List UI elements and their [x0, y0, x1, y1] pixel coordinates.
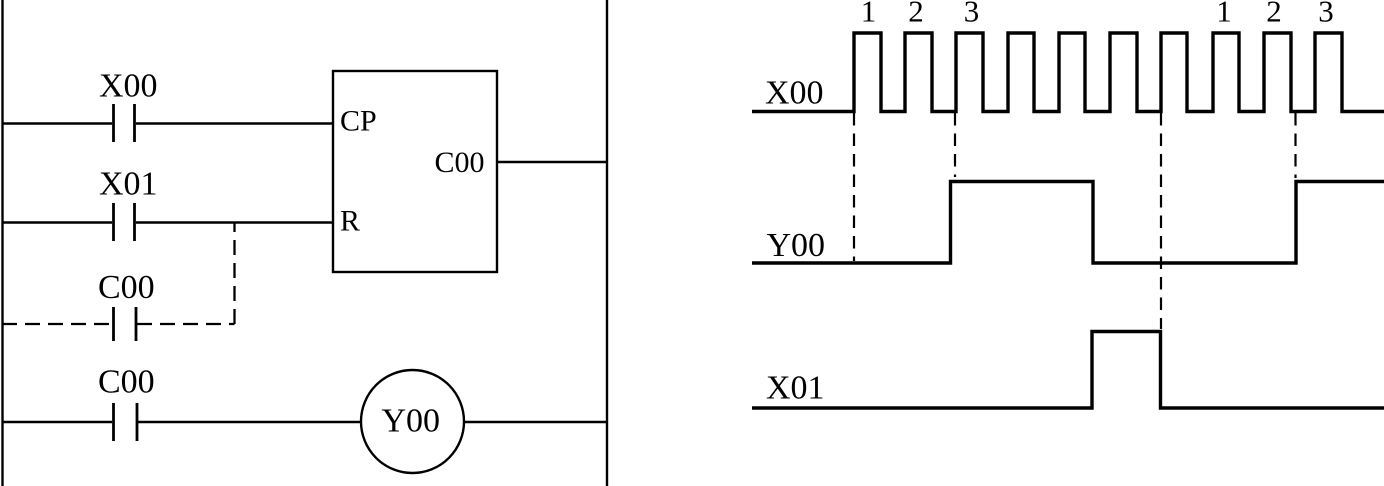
svg-text:1: 1: [861, 0, 877, 29]
svg-text:R: R: [340, 204, 360, 237]
svg-text:X01: X01: [766, 370, 825, 407]
svg-text:C00: C00: [98, 364, 155, 401]
svg-text:Y00: Y00: [767, 227, 826, 264]
svg-text:3: 3: [964, 0, 980, 29]
svg-text:1: 1: [1216, 0, 1232, 29]
svg-text:C00: C00: [435, 146, 485, 179]
svg-text:2: 2: [908, 0, 924, 29]
svg-text:C00: C00: [98, 269, 155, 306]
svg-text:X00: X00: [765, 74, 824, 111]
svg-text:CP: CP: [340, 104, 377, 137]
svg-text:X01: X01: [99, 166, 158, 203]
svg-text:Y00: Y00: [382, 403, 441, 440]
svg-text:X00: X00: [99, 68, 158, 105]
svg-text:3: 3: [1318, 0, 1334, 29]
svg-text:2: 2: [1266, 0, 1282, 29]
